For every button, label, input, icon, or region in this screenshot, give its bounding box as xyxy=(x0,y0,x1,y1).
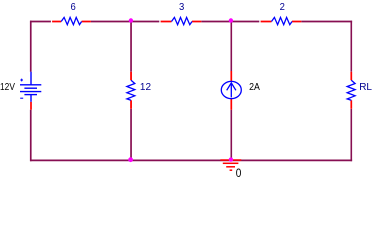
junction dot bottom ground xyxy=(229,157,233,161)
svg-text:0: 0 xyxy=(236,167,242,180)
wire right branch upper xyxy=(350,21,352,72)
resistor R 2 (horizontal) xyxy=(261,17,302,24)
svg-text:2A: 2A xyxy=(249,80,260,92)
resistor RL (vertical, right branch) xyxy=(347,72,355,109)
resistor R 6 (horizontal) xyxy=(52,17,91,24)
svg-text:12V: 12V xyxy=(0,82,16,93)
svg-text:2: 2 xyxy=(280,2,285,13)
ground symbol 0 xyxy=(220,160,241,170)
wire current source branch upper xyxy=(230,21,232,71)
current source I1 2A xyxy=(221,71,241,110)
svg-text:3: 3 xyxy=(179,2,184,13)
junction dot top middle xyxy=(129,18,133,22)
resistor R 3 (horizontal) xyxy=(161,17,202,24)
wire middle branch upper xyxy=(130,21,132,72)
junction dot bottom middle xyxy=(128,157,133,162)
svg-text:RL: RL xyxy=(359,82,372,93)
voltage source V1 12V (battery) xyxy=(20,72,41,110)
svg-text:6: 6 xyxy=(71,2,76,13)
wire current source branch lower xyxy=(230,110,232,161)
wire left branch lower xyxy=(30,110,32,162)
resistor R 12 (vertical, middle branch) xyxy=(127,72,135,109)
wire right branch lower xyxy=(350,109,352,161)
wire top bus xyxy=(30,21,352,23)
wire middle branch lower xyxy=(130,109,132,161)
wire left branch xyxy=(30,21,32,72)
junction dot top current source xyxy=(229,18,233,22)
svg-text:12: 12 xyxy=(140,82,152,93)
wire bottom bus xyxy=(30,159,352,161)
